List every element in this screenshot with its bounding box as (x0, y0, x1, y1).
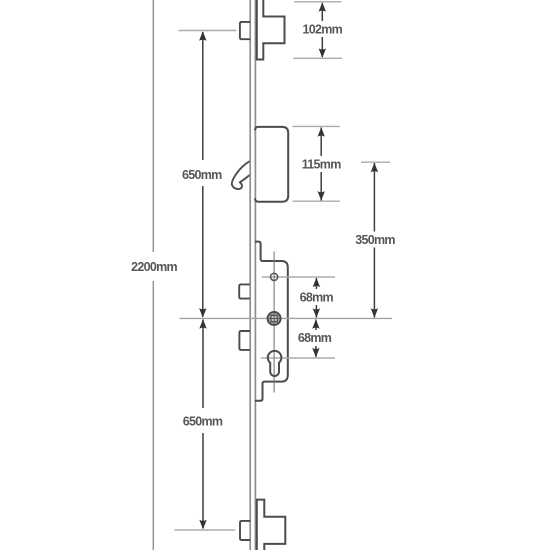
top left keep tab (240, 22, 250, 39)
dimension 68mm upper arrow (313, 278, 320, 318)
extension line: 115mm top (293, 125, 340, 127)
label 68mm lower (298, 330, 334, 346)
dimension 115mm arrow (318, 127, 325, 200)
dimension 2200mm line (152, 0, 154, 550)
svg-text:650mm: 650mm (182, 168, 222, 182)
svg-text:2200mm: 2200mm (131, 260, 177, 274)
hook lock case (rounded box) (255, 127, 288, 202)
gearbox left tab upper (239, 284, 250, 298)
long centre line (spindle height) (179, 317, 392, 319)
gearbox left tab lower (239, 331, 250, 350)
bottom left keep tab (240, 521, 250, 540)
svg-text:102mm: 102mm (303, 23, 343, 37)
extension line: 650mm top (tab centre) (179, 30, 237, 32)
svg-text:350mm: 350mm (355, 233, 395, 247)
label 650mm lower (181, 408, 225, 433)
label 68mm upper (299, 289, 335, 305)
hook bolt (behind faceplate) (232, 161, 251, 189)
central gearbox case (255, 242, 288, 401)
gearbox vertical centreline (273, 252, 275, 393)
handle fixing hole (271, 273, 278, 280)
top roller/deadbolt block (cross shape) (257, 0, 285, 60)
dimension 350mm arrow (371, 163, 378, 318)
spindle follower (square hole) (268, 312, 281, 325)
faceplate strip (two vertical lines) (250, 0, 255, 550)
extension line: 115mm bottom (293, 200, 340, 202)
label 115mm (300, 156, 343, 172)
label 350mm (353, 232, 397, 248)
svg-text:115mm: 115mm (302, 157, 341, 171)
extension line: 650mm bottom (tab centre) (175, 529, 236, 531)
label 102mm (301, 21, 344, 37)
euro cylinder keyhole (268, 351, 282, 376)
dimension 68mm lower arrow (312, 319, 319, 357)
dimension 650mm lower arrow (199, 319, 206, 529)
label 650mm upper (180, 160, 224, 186)
extension line: 350mm top (hook centre) (361, 161, 390, 163)
label 2200mm (129, 252, 179, 281)
svg-text:68mm: 68mm (298, 331, 332, 345)
extension line: 102mm bottom (293, 57, 342, 59)
extension line: 68mm lower (cylinder centre) (261, 357, 335, 359)
dimension 650mm upper arrow (199, 31, 206, 317)
bottom roller/deadbolt block (cross shape) (257, 500, 286, 550)
extension line: 102mm top (294, 1, 342, 3)
dimension 102mm arrow (319, 2, 326, 58)
extension line: 68mm upper (handle hole centre) (262, 276, 335, 278)
svg-text:650mm: 650mm (183, 415, 223, 429)
svg-text:68mm: 68mm (300, 290, 334, 304)
